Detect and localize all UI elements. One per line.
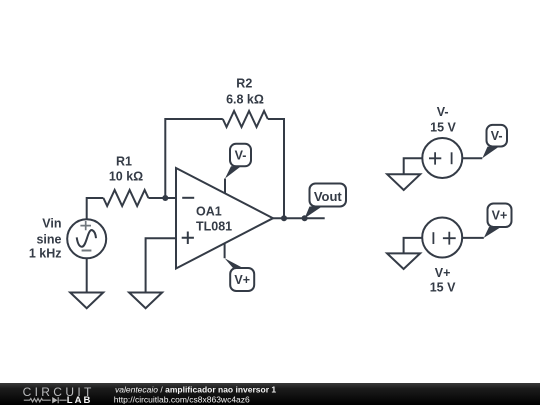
- svg-text:V+: V+: [492, 209, 508, 223]
- svg-text:V+: V+: [435, 266, 451, 280]
- svg-text:Vin: Vin: [42, 217, 61, 231]
- svg-text:V-: V-: [235, 148, 247, 162]
- svg-text:6.8 kΩ: 6.8 kΩ: [226, 92, 264, 106]
- svg-text:sine: sine: [36, 232, 61, 246]
- svg-text:TL081: TL081: [196, 220, 232, 234]
- svg-text:R1: R1: [116, 154, 132, 168]
- svg-text:LAB: LAB: [67, 395, 93, 405]
- svg-text:OA1: OA1: [196, 205, 222, 219]
- svg-text:V-: V-: [491, 129, 503, 143]
- svg-text:http://circuitlab.com/cs8x863w: http://circuitlab.com/cs8x863wc4az6: [114, 394, 250, 404]
- svg-text:15 V: 15 V: [430, 121, 456, 135]
- svg-text:1 kHz: 1 kHz: [29, 247, 62, 261]
- svg-text:10 kΩ: 10 kΩ: [109, 169, 143, 183]
- svg-text:15 V: 15 V: [430, 281, 456, 295]
- svg-text:valentecaio / amplificador nao: valentecaio / amplificador nao inversor …: [115, 384, 276, 394]
- svg-text:V+: V+: [234, 273, 250, 287]
- svg-text:R2: R2: [236, 77, 252, 91]
- svg-text:Vout: Vout: [314, 189, 343, 204]
- svg-text:V-: V-: [437, 105, 449, 119]
